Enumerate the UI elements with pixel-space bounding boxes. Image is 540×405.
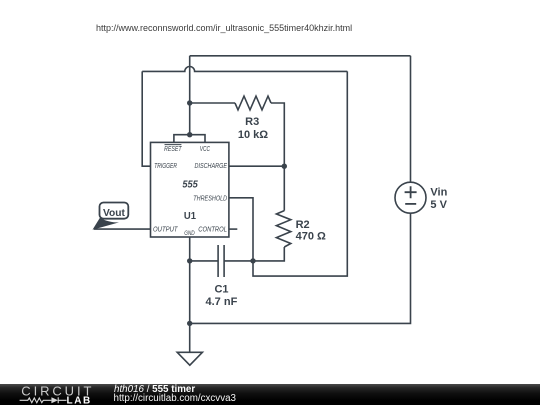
wire capacitor left [190, 260, 218, 262]
svg-text:GND: GND [184, 230, 195, 237]
svg-text:Vin: Vin [430, 187, 447, 199]
footer bar [0, 384, 540, 405]
svg-text:DISCHARGE: DISCHARGE [195, 161, 228, 170]
junction bracket top [187, 132, 192, 137]
svg-text:R2: R2 [296, 219, 310, 231]
wire CONTROL stub [229, 228, 237, 230]
wire R2 top lead [283, 166, 285, 211]
wire R3 left lead [190, 102, 235, 104]
svg-text:CONTROL: CONTROL [198, 224, 227, 233]
svg-text:OUTPUT: OUTPUT [153, 224, 179, 233]
resistor R3 [235, 96, 271, 110]
voltage source Vin circle [395, 182, 426, 213]
wire THRESHOLD pin [229, 198, 253, 261]
junction VCC-R3 [187, 100, 192, 105]
junction GND rail [187, 321, 192, 326]
wire capacitor right [224, 260, 253, 262]
IC U1 555 timer box [151, 142, 229, 237]
voltage source minus sign [405, 203, 416, 205]
junction THRESHOLD-C1-R2 [250, 258, 255, 263]
svg-text:470 Ω: 470 Ω [296, 231, 326, 243]
svg-text:C1: C1 [214, 284, 228, 296]
svg-text:10 kΩ: 10 kΩ [238, 129, 268, 141]
wire trigger top rail with hop [142, 67, 347, 72]
CircuitLab logo [0, 383, 100, 405]
svg-text:4.7 nF: 4.7 nF [206, 296, 238, 308]
svg-text:555: 555 [182, 179, 198, 190]
voltage source plus sign [405, 186, 417, 198]
svg-text:U1: U1 [184, 211, 197, 222]
capacitor C1 [218, 245, 224, 277]
wire Vin top lead [410, 56, 412, 182]
wire trigger right vertical [253, 71, 347, 276]
svg-text:R3: R3 [245, 116, 259, 128]
node Vout callout tail [93, 218, 120, 230]
junction GND-C1 [187, 258, 192, 263]
wire VCC top rail [190, 55, 411, 57]
wire trigger left vertical [142, 71, 150, 166]
resistor R2 [276, 211, 290, 247]
svg-text:LAB: LAB [67, 395, 92, 405]
wire DISCHARGE pin [229, 165, 284, 167]
wire GND vertical [189, 237, 191, 352]
wire R3 right lead down [271, 103, 284, 166]
svg-text:TRIGGER: TRIGGER [154, 161, 177, 170]
node Vout callout box [100, 203, 129, 219]
svg-text:RESET: RESET [164, 144, 182, 153]
svg-text:VCC: VCC [200, 144, 211, 153]
wire RESET VCC bracket [174, 135, 205, 143]
pin label RESET overline [165, 144, 182, 146]
ground [177, 352, 202, 365]
wire VCC vertical drop [189, 56, 191, 135]
wire ground bottom rail [190, 213, 411, 323]
wire R2 bottom lead [253, 247, 284, 261]
junction DISCHARGE-R3-R2 [282, 164, 287, 169]
source URL text [96, 23, 352, 33]
wire OUTPUT pin [94, 228, 151, 230]
svg-text:Vout: Vout [103, 208, 126, 219]
svg-text:THRESHOLD: THRESHOLD [193, 193, 227, 202]
svg-text:5 V: 5 V [430, 199, 447, 211]
